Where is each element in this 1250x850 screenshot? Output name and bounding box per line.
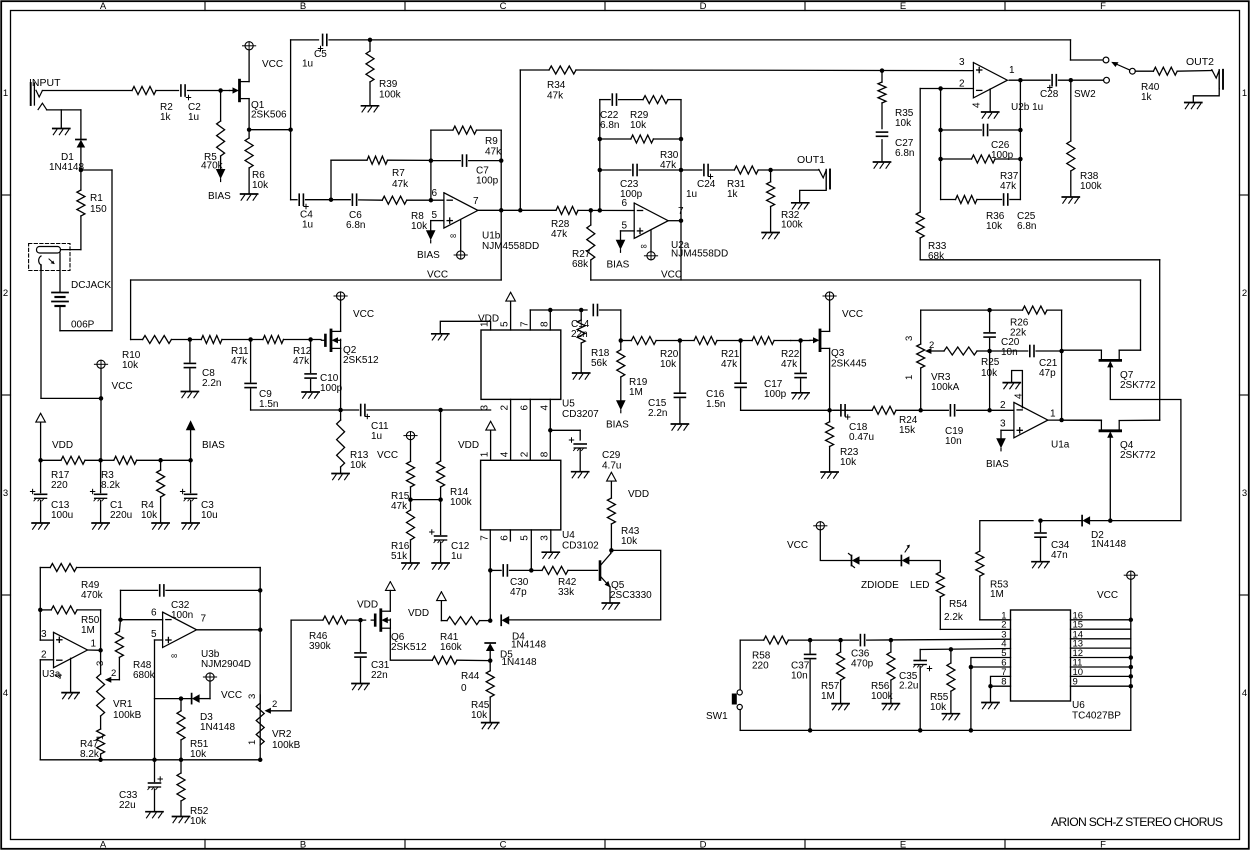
ground at Q5 emitter [602,587,619,609]
pin4 label U2b [972,102,983,108]
capacitor C37 [791,640,816,730]
wire right feedback vertical U1a [1059,310,1064,422]
svg-text:100u: 100u [51,510,73,521]
wire U2b minus row [920,86,973,91]
U5 bottom pin labels [480,405,551,411]
ground OUT1 [792,203,809,209]
capacitor C2 [181,85,201,123]
capacitor C6 [346,194,365,231]
battery 006P [41,170,112,331]
svg-text:1N4148: 1N4148 [511,640,546,651]
svg-text:VCC: VCC [842,309,863,320]
svg-text:4: 4 [500,451,511,457]
svg-text:4: 4 [3,688,8,699]
op-amp U2b [959,57,1043,113]
svg-text:VCC: VCC [1097,590,1118,601]
svg-text:0.47u: 0.47u [849,432,874,443]
transistor Q5 [600,553,652,601]
capacitor C4 [299,194,313,230]
svg-text:D: D [700,840,707,850]
VDD triangle at Q6 drain [357,582,395,612]
wire Q4 gate down to D2 node [1108,438,1113,523]
wire R8 to U1b minus input [407,198,444,203]
svg-text:A: A [100,1,107,12]
capacitor C5 [302,34,327,69]
IC U4 CD3102 [481,460,600,551]
wire OUT2 sleeve [1193,89,1219,102]
wire Q5 collector to R43 node [609,548,614,553]
U5 top pin labels [480,321,551,327]
svg-text:VDD: VDD [357,600,378,611]
U3a pin4 ground [62,658,79,699]
wire sleeve to D1 [80,110,82,140]
U2a feedback right vertical to rail [679,100,684,280]
wire R34 to U2b plus input [576,68,973,73]
wire SW1 column [739,640,741,730]
resistor R54 [936,572,967,630]
potentiometer VR2 [247,694,301,751]
resistor R19 [617,341,648,401]
resistor R35 [878,82,914,129]
VCC symbol at Q2 [334,292,374,320]
svg-text:2SK445: 2SK445 [831,359,867,370]
svg-text:10k: 10k [141,510,158,521]
wire R31 to OUT1 jack [758,168,819,173]
wire R12 to Q2 gate [284,337,322,342]
wire R50 to U3a output [98,610,103,653]
capacitor C17 [764,341,806,401]
wire U4 pin5 to R42 [529,530,534,573]
infinity power pin U3b [171,651,177,661]
capacitor C11 [341,405,389,443]
ground below C10 [302,392,319,398]
svg-text:5: 5 [622,221,628,232]
wire U5 pins7/8 to C14 [530,308,587,330]
U1a pin4 wire to ground [1012,371,1023,408]
wire U2a output [668,220,681,222]
feedback left vertical at U1b [429,130,434,200]
wire SW2 to R40 [1135,70,1153,72]
wire C28 to SW2 node [1058,78,1103,83]
wire C36 to U6 pin3 [867,638,1011,643]
svg-text:7: 7 [519,321,530,327]
svg-text:VCC: VCC [377,450,398,461]
resistor R36 and capacitor C25 [941,194,1037,232]
resistor R55 [930,649,955,713]
wire Q1 drain to VCC [248,50,250,82]
wire OUT1 sleeve to ground [800,189,827,203]
resistor R33 [916,212,947,262]
diode LED [901,545,929,591]
svg-text:2SK512: 2SK512 [391,642,427,653]
wire C32 to right vertical [166,588,262,593]
svg-text:F: F [1100,840,1106,850]
svg-text:1u: 1u [451,551,462,562]
svg-text:E: E [900,1,906,12]
svg-text:1: 1 [1242,88,1247,99]
ground below C17 [792,393,809,399]
svg-text:220: 220 [752,661,769,672]
svg-text:1N4148: 1N4148 [200,722,235,733]
svg-text:47p: 47p [510,587,527,598]
diode D1 [49,140,86,174]
svg-text:10k: 10k [930,702,947,713]
wire Q4 right stub [1119,419,1160,421]
resistor R4 [141,460,165,522]
capacitor C23 [600,165,681,201]
IC U5 CD3207 [481,330,599,420]
capacitor C31 [355,620,390,682]
U4 pin3 ground [542,530,559,559]
resistor R11 [201,336,249,368]
bias arrow up at left rail [186,420,225,460]
VCC symbol at R15 [377,432,417,462]
ground below R57 [832,704,849,710]
svg-text:7: 7 [473,196,479,207]
resistor R16 [391,500,415,562]
svg-text:1.5n: 1.5n [706,399,725,410]
resistor R10 [122,336,171,372]
capacitor C7 [431,155,501,186]
svg-text:1: 1 [3,88,8,99]
resistor R45 [471,661,494,722]
svg-text:CD3102: CD3102 [562,541,599,552]
capacitor C9 [245,340,278,411]
svg-text:A: A [100,840,107,850]
svg-text:6: 6 [432,188,438,199]
wire D3 row [155,696,192,701]
svg-text:10k: 10k [350,460,367,471]
resistor R49 [40,564,260,602]
resistor R39 [366,40,402,105]
ground below C8 [181,392,198,398]
wire U6 pins5/6 to bottom rail [969,658,1011,733]
svg-text:47k: 47k [781,359,798,370]
capacitor C10 [305,340,343,395]
wire Q6 source to R44 [390,628,432,660]
wire VR3 top row [921,308,992,313]
IC U6 TC4027BP [1011,610,1122,722]
diode D4 [501,615,509,625]
wire Q1 source to node [247,99,293,132]
svg-text:2.2u: 2.2u [899,681,918,692]
capacitor C34 [1035,518,1070,561]
wire Q4 left stub [1062,419,1102,421]
resistor R50 [40,606,100,636]
svg-text:NJM4558DD: NJM4558DD [482,241,539,252]
resistor R51 [177,699,209,762]
VCC symbol at LED chain [787,522,827,551]
resistor R1 [77,170,107,250]
wire right vertical of LFO [258,568,263,763]
op-amp U1a [1000,400,1070,451]
transistor Q2 [321,330,379,366]
wire U2b minus to R33 [919,89,921,213]
wire C35 to U6 pin4 [920,647,1010,652]
wire R10 drop from rail [130,280,132,340]
wire R34 riser [520,70,549,210]
svg-text:6: 6 [151,608,157,619]
svg-text:6.8n: 6.8n [895,148,914,159]
svg-text:100kB: 100kB [272,740,301,751]
bias arrow at U1a plus input [986,430,1014,470]
svg-text:3: 3 [959,57,965,68]
ground below R39 [362,106,379,112]
wire R7 to feedback vertical [388,159,431,161]
svg-text:8: 8 [539,321,550,327]
svg-text:1M: 1M [81,625,95,636]
bottom rail of LFO [40,758,260,763]
ground below C1 [92,523,109,529]
svg-text:CD3207: CD3207 [562,409,599,420]
wire U3b output to right vertical [197,628,263,633]
svg-text:VR1: VR1 [113,699,133,710]
ground below C13 [32,523,49,529]
VCC symbol above left rail [94,360,132,398]
svg-text:6: 6 [519,405,530,411]
svg-text:47k: 47k [392,179,409,190]
diode D2 [1082,516,1126,550]
svg-text:47p: 47p [1039,368,1056,379]
svg-text:1N4148: 1N4148 [502,657,537,668]
resistor R40 [1141,67,1177,103]
VDD triangle at R41 [408,592,446,621]
U4 pin6 stub [509,530,511,541]
U5 pin1 wire to ground [440,314,499,333]
wire Q2 source to C11 row and C9 join [251,348,343,412]
wire VCC to ZDIODE [820,530,851,561]
svg-text:B: B [300,1,306,12]
capacitor C26 [941,125,1021,162]
svg-text:U1a: U1a [1051,440,1070,451]
capacitor C27 [877,132,915,161]
wire Q3 drain to VCC [829,300,831,331]
ground OUT2 [1185,103,1202,109]
capacitor C33 [119,760,162,811]
svg-text:VDD: VDD [628,489,649,500]
resistor R2 [132,87,173,124]
input jack INPUT [29,77,61,110]
wire C6 to R8 [359,199,383,201]
svg-text:E: E [900,840,906,850]
resistor R17 [41,456,101,491]
svg-text:22n: 22n [371,670,388,681]
resistor R58 [752,636,788,671]
svg-text:VCC: VCC [353,309,374,320]
svg-text:4: 4 [972,102,983,108]
svg-text:15k: 15k [899,425,916,436]
svg-text:3: 3 [1000,419,1006,430]
wire ZDIODE to LED [860,560,902,562]
svg-text:100kA: 100kA [931,382,960,393]
VDD triangle left rail [36,413,73,460]
svg-text:R54: R54 [949,599,968,610]
svg-text:680k: 680k [133,670,156,681]
resistor R57 [821,640,845,703]
svg-text:100p: 100p [764,389,787,400]
svg-text:6.8n: 6.8n [1017,221,1036,232]
resistor R26 [990,306,1062,338]
svg-text:Q3: Q3 [831,348,845,359]
svg-text:R7: R7 [392,168,405,179]
svg-text:100p: 100p [620,189,643,200]
ground U2b pin4 [982,112,999,118]
svg-text:10n: 10n [791,671,808,682]
wire dcjack sleeve down to VCC node [41,265,103,401]
svg-text:51k: 51k [391,551,408,562]
capacitor C32 [160,585,194,621]
svg-text:8.2k: 8.2k [101,480,121,491]
transistor Q1 [230,80,288,120]
U2b feedback left vertical [938,89,943,200]
svg-text:C5: C5 [314,49,327,60]
svg-text:2: 2 [111,668,116,679]
resistor R22 [752,337,810,371]
svg-text:OUT2: OUT2 [1186,56,1214,68]
ground below C3 [182,523,199,529]
svg-text:56k: 56k [591,358,608,369]
svg-text:100k: 100k [450,497,473,508]
wire C24 to R31 [710,169,734,171]
resistor R9 [431,126,502,157]
transistor Q3 [810,330,867,370]
capacitor C13 [30,460,73,522]
svg-text:47k: 47k [391,501,408,512]
svg-text:1: 1 [480,451,491,457]
svg-text:7: 7 [480,535,491,541]
svg-text:∞: ∞ [450,231,456,241]
wire VCC node down to R3 rail [100,398,102,460]
wire R54 to U6 pin2 [940,628,1010,630]
wire C11 to U5 pin3 [367,408,491,413]
resistor R47 [80,716,105,762]
svg-text:470k: 470k [81,590,104,601]
output jack OUT1 [797,154,830,189]
diode D5 [485,643,495,651]
capacitor C28 [1040,75,1059,100]
svg-text:4.7u: 4.7u [602,461,621,472]
svg-text:1: 1 [247,740,258,745]
svg-text:22u: 22u [119,800,136,811]
svg-text:006P: 006P [71,320,95,331]
resistor R29 [630,96,681,131]
labels D4 D5 [500,632,546,669]
wire U3a minus down to rail [40,660,53,760]
U2b pin4 ground stem [989,89,991,111]
svg-text:2SK512: 2SK512 [343,355,379,366]
feedback right vertical at U1b output down to rail [499,130,504,280]
wire C34 to D2 and Q4 gate node [1041,520,1181,522]
ground below R52 [173,817,190,823]
capacitor C36 [851,635,874,670]
ground at U5 pin1 [432,334,449,340]
svg-text:B: B [300,840,306,850]
wire C4 to C6 with R7 tap [306,197,351,202]
wires U5 to U4 interconnect [511,399,553,460]
VCC symbol power U2a [644,252,657,260]
resistor R14 [437,410,473,508]
ground below R16 [402,563,419,569]
wire C5 to R39 node and onward to right [329,38,1071,43]
svg-text:3: 3 [480,405,491,411]
wire U3a output apex [88,649,101,651]
ground below R6 [241,194,258,200]
wire Q7 left stub to C21 node [1062,349,1102,351]
svg-text:DCJACK: DCJACK [71,280,111,291]
wire U6 VCC column [1130,579,1132,730]
capacitor C18 [841,405,874,443]
dc jack DCJACK [29,244,112,292]
svg-text:1N4148: 1N4148 [1091,539,1126,550]
svg-text:R25: R25 [981,357,1000,368]
wire U2b output to C28 [1009,78,1050,83]
resistor R25 [944,347,1000,379]
svg-text:100k: 100k [1080,181,1103,192]
wire bus from Q1 source node up and top rail to C5 [291,40,319,200]
wire R49 left vertical to U3a plus [38,568,53,641]
svg-text:VR2: VR2 [272,729,292,740]
svg-text:2: 2 [1000,400,1006,411]
ground below C33 [146,812,163,818]
svg-text:ZDIODE: ZDIODE [861,580,899,591]
wire R43 node loop to D4 row [510,550,661,620]
wire input tip to R2 [42,90,132,92]
bias arrow below R19 [606,400,629,430]
svg-text:10k: 10k [411,221,428,232]
svg-text:2: 2 [41,650,47,661]
svg-text:2: 2 [272,699,277,710]
svg-text:1u: 1u [188,112,199,123]
ground below R18 [573,373,590,379]
ground below C15 [671,424,688,430]
op-amp U3b [151,608,251,671]
wire U6 pins7/8 to ground [988,676,1010,701]
wire R33 to Q4 right stub [920,260,1159,420]
svg-text:3: 3 [3,488,8,499]
svg-text:4: 4 [54,673,65,679]
svg-text:8.2k: 8.2k [80,749,100,760]
resistor R32 [767,170,804,232]
svg-text:10k: 10k [840,457,857,468]
capacitor C8 [184,340,221,391]
svg-text:1u: 1u [302,59,313,70]
capacitor C21 [990,346,1062,380]
U2b feedback right vertical [1018,80,1023,199]
svg-text:150: 150 [90,204,107,215]
svg-text:VCC: VCC [661,270,682,281]
op-amp U2a [622,198,729,260]
svg-text:1u: 1u [302,220,313,231]
svg-text:8: 8 [539,451,550,457]
U6 right pin labels [1073,610,1084,687]
wire R7 riser [331,160,367,200]
VCC rail below U2a to Q7 drop [591,270,1141,281]
U4 top pin labels [480,451,551,457]
svg-text:2SC3330: 2SC3330 [610,590,652,601]
resistor R8 [382,196,428,232]
VCC symbol at U6 [1097,571,1137,601]
resistor R5 [201,91,225,172]
wire C18 to R24 [830,409,873,411]
capacitor C22 [600,94,643,131]
ground below R4 [152,523,169,529]
svg-text:3: 3 [247,694,258,699]
svg-text:100n: 100n [171,610,193,621]
resistor R30 [600,135,681,171]
svg-text:U6: U6 [1072,700,1085,711]
svg-text:100p: 100p [320,383,343,394]
VCC symbol power U1b [454,251,467,259]
